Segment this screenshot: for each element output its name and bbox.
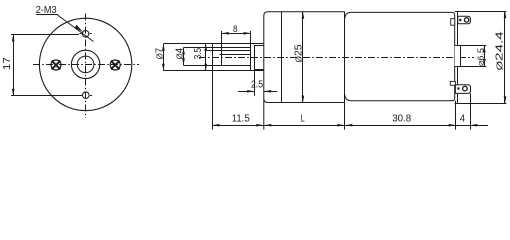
svg-text:Ø24.4: Ø24.4 bbox=[495, 31, 506, 71]
svg-text:8: 8 bbox=[233, 24, 238, 34]
svg-text:L: L bbox=[301, 113, 305, 124]
svg-text:Ø7: Ø7 bbox=[154, 47, 165, 59]
svg-text:Ø4: Ø4 bbox=[174, 47, 185, 59]
svg-text:3.5: 3.5 bbox=[193, 47, 204, 59]
svg-text:30.8: 30.8 bbox=[392, 113, 411, 124]
svg-text:17: 17 bbox=[2, 57, 13, 71]
svg-text:4: 4 bbox=[460, 114, 466, 125]
svg-text:2.5: 2.5 bbox=[251, 80, 263, 91]
svg-text:Ø25: Ø25 bbox=[293, 44, 304, 62]
svg-text:11.5: 11.5 bbox=[232, 114, 250, 125]
